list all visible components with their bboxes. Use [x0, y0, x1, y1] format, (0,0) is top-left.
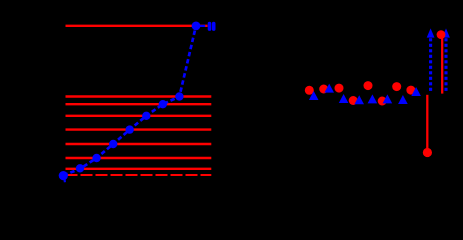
level line E5: [66, 115, 212, 117]
blue circle marker m6: [159, 100, 167, 108]
red circle r3: [335, 84, 344, 93]
red circle r5: [364, 81, 373, 90]
blue circle marker m5: [142, 112, 150, 120]
red circle r4: [349, 96, 358, 105]
blue dashed arrow stem 1: [429, 38, 432, 93]
blue double-bar symbol right of m8: [208, 24, 212, 30]
blue arrow head 2: [442, 28, 450, 37]
level line E2: [66, 157, 212, 159]
red circle r7: [392, 82, 401, 91]
blue triangle t4: [354, 95, 364, 104]
blue dashed chain connecting markers: [64, 26, 197, 176]
red circle low point: [423, 148, 432, 157]
blue solid segment from top marker toward error bars: [196, 25, 205, 27]
blue circle marker m2: [92, 154, 100, 162]
blue triangle t7: [398, 95, 408, 104]
red circle high point: [437, 30, 446, 39]
blue circle marker m8 (top level): [192, 22, 201, 31]
blue circle marker m1: [76, 164, 84, 172]
blue circle marker m3: [109, 140, 117, 148]
blue circle marker m7: [175, 92, 183, 100]
blue triangle t2: [324, 84, 334, 93]
red circle r6: [378, 97, 387, 106]
blue triangle t3: [339, 94, 349, 103]
dashed level line E0 (separatrix): [66, 174, 212, 176]
red circle r2: [319, 85, 328, 94]
level line E1: [66, 168, 212, 170]
blue triangle t1: [309, 91, 319, 100]
blue triangle t6: [383, 94, 393, 103]
red circle r8: [406, 86, 415, 95]
blue arrow head 1: [427, 28, 435, 37]
level line E3: [66, 143, 212, 145]
blue circle marker m4: [126, 125, 134, 133]
right panel: red circle r1: [305, 86, 314, 95]
red stem up from baseline to high point: [441, 38, 443, 94]
level line E4: [66, 128, 212, 130]
top energy level line E8: [66, 25, 208, 27]
blue triangle t8: [411, 87, 421, 96]
level line E7: [66, 95, 212, 97]
red stem down to low point: [426, 95, 428, 149]
blue circle marker m0: [59, 171, 68, 180]
blue dashed arrow stem 2: [444, 38, 447, 93]
level line E6: [66, 103, 212, 105]
blue triangle t5: [368, 94, 378, 103]
small blue tail below marker m0: [63, 180, 66, 183]
